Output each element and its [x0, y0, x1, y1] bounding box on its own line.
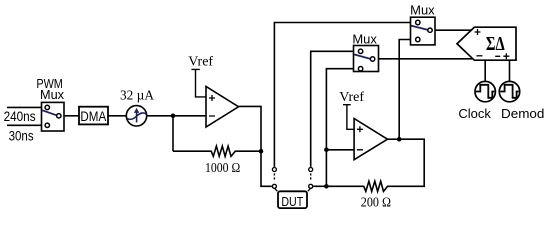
wire sense/feedback net x=326: [326, 69, 353, 187]
node A junction: [171, 114, 176, 119]
op-amp U2: [354, 119, 387, 160]
dashed connection right: [308, 173, 311, 191]
pin clock: [484, 60, 486, 81]
wire U2 output node: [388, 138, 400, 140]
mux M2 lever: [354, 54, 370, 58]
wire 240ns input: [7, 106, 42, 108]
svg-text:240ns: 240ns: [4, 109, 36, 124]
mux M2 contact out: [370, 57, 374, 61]
wire DMA to current source: [108, 115, 126, 117]
svg-text:30ns: 30ns: [9, 128, 34, 143]
terminal right lower: [309, 184, 313, 188]
svg-text:DUT: DUT: [281, 194, 303, 209]
svg-text:Mux: Mux: [410, 2, 435, 17]
terminal left lower: [272, 184, 276, 188]
wire node A down to feedback row: [172, 116, 174, 151]
wire mux M1 to DMA: [64, 115, 79, 117]
plus input marker: [475, 29, 481, 35]
mux M1 contact out: [57, 114, 61, 118]
node C junction: [324, 148, 329, 153]
svg-text:200 Ω: 200 Ω: [361, 195, 391, 210]
mux M3 contact out: [428, 28, 432, 32]
current source I1 32uA: [126, 106, 146, 126]
svg-text:Mux: Mux: [352, 31, 377, 46]
terminal right upper: [309, 168, 313, 172]
wire lower right terminal to node D: [313, 185, 326, 187]
wire 30ns input: [7, 124, 42, 126]
node B junction (feedback/output): [259, 149, 264, 154]
svg-text:Mux: Mux: [40, 87, 64, 102]
block DUT: [278, 191, 307, 208]
node D junction: [324, 184, 329, 189]
clock source: [475, 81, 495, 101]
terminal left upper: [272, 168, 276, 172]
mux M3 contact in1: [416, 20, 420, 24]
mux M1 (PWM Mux) box: [42, 102, 65, 131]
wire sense left: up and over to mux M3: [274, 23, 410, 167]
demod polarity markers - +: [495, 53, 509, 59]
svg-text:32 µA: 32 µA: [120, 88, 154, 103]
mux M1 contact in2: [45, 123, 49, 127]
mux M1 contact in1: [45, 105, 49, 109]
svg-text:Vref: Vref: [339, 90, 364, 105]
svg-text:Clock: Clock: [458, 106, 491, 121]
op-amp U1: [206, 87, 239, 128]
demod source: [499, 81, 519, 101]
resistor R2 200 ohm feedback: [326, 139, 424, 191]
mux M3 contact in2: [416, 37, 420, 41]
resistor R1 1000 ohm feedback: [173, 146, 261, 156]
wire mux M3 output to sigma-delta plus input: [435, 29, 471, 31]
mux M2 box: [354, 46, 379, 72]
block DMA: [79, 107, 108, 125]
mux M3 box: [411, 17, 436, 45]
svg-text:Vref: Vref: [188, 55, 213, 70]
mux M2 contact in2: [358, 67, 362, 71]
minus input marker: [477, 55, 483, 57]
svg-text:DMA: DMA: [80, 109, 107, 124]
svg-text:ΣΔ: ΣΔ: [486, 33, 505, 55]
node E junction: [397, 137, 402, 142]
wire current source to op-amp U1 inverting input: [147, 115, 206, 117]
wire sense right: up and over to mux M2: [311, 51, 354, 167]
mux M1 lever: [42, 110, 56, 115]
pin demod: [509, 60, 511, 81]
wire to U2 inverting input: [326, 149, 354, 151]
svg-text:1000 Ω: 1000 Ω: [205, 160, 240, 175]
svg-text:Demod: Demod: [501, 106, 544, 121]
sigma-delta modulator U3: [457, 27, 516, 60]
mux M2 contact in1: [358, 49, 362, 53]
wire mux M2 output to sigma-delta minus input: [379, 58, 473, 60]
mux M3 lever: [411, 26, 428, 30]
wire U1 output to force node: [239, 106, 272, 186]
wire node E up to mux M3 input 2: [399, 40, 410, 140]
dashed connection left: [274, 173, 277, 191]
